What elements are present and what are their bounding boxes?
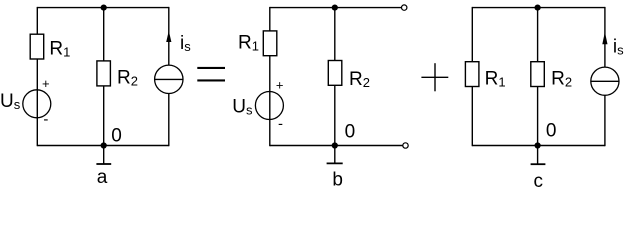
current source circle (circuit c) [591,67,619,95]
plus sign vertical stroke [434,63,436,91]
wire: middle branch lower (R2 to bottom) [537,87,539,146]
wire: left branch upper segment (top corner to R1) [36,7,38,35]
wire: bottom wire of circuit c [472,145,605,147]
wire: top wire of circuit a [37,7,169,9]
wire: right branch lower (current source to bottom) [604,95,606,146]
resistor R2 (circuit c) [531,62,545,87]
ground bar (circuit c) [531,163,546,165]
wire: right branch lower (current source to bottom wire) [168,94,170,147]
wire: bottom wire of circuit b [270,145,403,147]
svg-text:+: + [42,76,50,91]
svg-text:0: 0 [345,122,356,143]
resistor R1 (circuit c) [465,62,479,87]
svg-text:R1: R1 [49,39,70,60]
resistor R1 (circuit a) [30,34,44,59]
wire: left branch through voltage source to bottom [36,59,38,146]
wire: bottom wire of circuit a [37,145,169,147]
wire: middle branch lower (R2 to bottom wire) [103,86,105,146]
wire: right branch upper (top corner to current source) [168,7,170,65]
open terminal top (circuit b) [402,5,407,10]
wire: middle branch upper (junction to R2) [103,8,105,62]
resistor R2 (circuit a) [97,61,111,86]
wire: left branch upper segment (top corner to R1) [269,7,271,31]
wire: middle branch upper (junction to R2) [537,8,539,62]
svg-text:c: c [534,171,544,192]
svg-text:R2: R2 [117,68,138,89]
resistor R1 (circuit b) [263,31,277,56]
arrowhead of i_s (circuit c) [602,32,607,44]
wire: left branch through voltage source to bottom [269,56,271,147]
junction dot top (circuit c) [535,5,541,11]
ground bar (circuit b) [327,162,343,164]
wire: right branch upper (top corner to current source) [604,7,606,67]
svg-text:0: 0 [546,121,557,142]
junction dot bottom / node 0 (circuit c) [535,142,541,148]
svg-text:-: - [278,116,283,133]
equals sign bottom bar [197,79,225,81]
svg-text:R2: R2 [551,69,572,90]
ground stub (circuit b) [334,146,336,164]
voltage source U_s (circuit a) [23,90,51,118]
current source circle (circuit a) [155,65,183,93]
ground stub (circuit a) [103,146,105,165]
current source bar (circuit c) [591,80,619,82]
junction dot bottom / node 0 (circuit a) [101,142,107,148]
svg-text:+: + [276,77,284,92]
svg-text:R2: R2 [349,69,370,90]
svg-text:R1: R1 [485,69,506,90]
wire: top wire of circuit c [472,7,605,9]
junction dot bottom / node 0 (circuit b) [332,142,338,148]
junction dot top (circuit b) [332,5,338,11]
plus sign horizontal stroke [421,76,448,78]
open terminal bottom (circuit b) [403,143,408,148]
svg-text:R1: R1 [238,33,259,54]
ground bar (circuit a) [96,163,111,165]
svg-text:Us: Us [232,97,253,118]
wire: left branch lower (R1 to bottom) [471,87,473,147]
junction dot top (circuit a) [101,5,107,11]
wire: top wire of circuit b [270,7,402,9]
wire: middle branch lower (R2 to bottom) [334,85,336,145]
voltage source U_s (circuit b) [255,92,283,120]
arrowhead of i_s (circuit a) [166,31,171,42]
wire: left branch upper (top corner to R1) [471,7,473,62]
svg-text:-: - [43,111,48,128]
equals sign top bar [197,67,225,69]
ground stub (circuit c) [537,146,539,165]
wire: middle branch upper (junction to R2) [334,8,336,61]
current source bar (circuit a) [155,78,183,80]
svg-text:is: is [180,33,191,54]
svg-text:is: is [613,37,624,58]
svg-text:0: 0 [111,125,122,146]
svg-text:Us: Us [0,91,21,112]
svg-text:b: b [332,169,343,190]
svg-text:a: a [97,167,108,188]
resistor R2 (circuit b) [328,61,342,86]
